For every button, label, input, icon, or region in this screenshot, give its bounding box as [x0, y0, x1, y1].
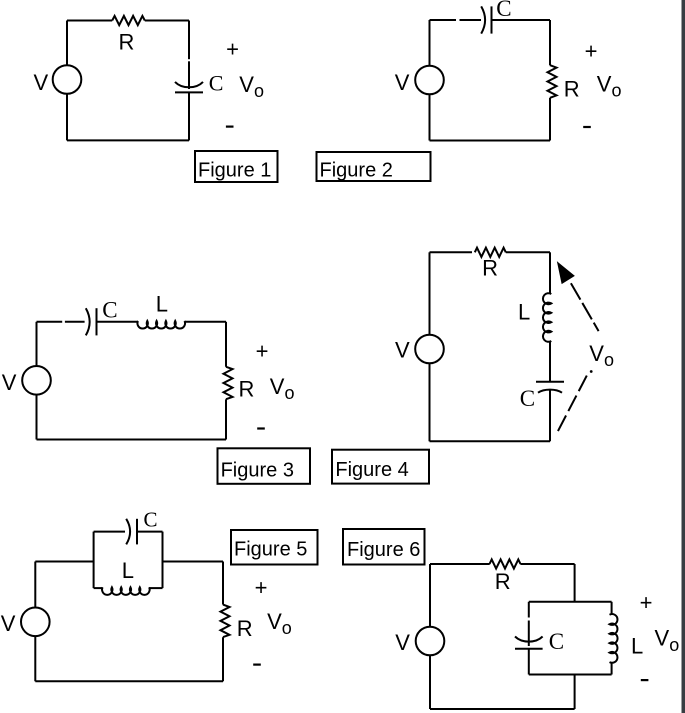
svg-text:Figure 1: Figure 1 — [198, 159, 271, 181]
wire right-upper (Figure 3) — [225, 322, 227, 367]
inductor L (Figure 3) — [137, 321, 185, 329]
minus sign (Figure 3) — [257, 427, 265, 429]
minus sign (Figure 5) — [253, 663, 261, 665]
Figure 4 caption box — [332, 450, 429, 484]
minus sign (Figure 2) — [583, 126, 591, 128]
wire left-top (Figure 3) — [36, 322, 38, 366]
svg-text:L: L — [631, 633, 643, 658]
svg-text:+: + — [226, 37, 239, 62]
voltage source V (Figure 6) — [416, 627, 445, 656]
LC block bottom-right corner (Figure 5) — [149, 587, 162, 589]
CL block bottom edge (Figure 6) — [529, 674, 612, 676]
wire top-left segment (Figure 4) — [430, 251, 473, 253]
inductor L (Figure 4) — [543, 293, 551, 342]
CL block right-upper edge (Figure 6) — [611, 602, 613, 615]
wire left-bottom (Figure 2) — [429, 94, 431, 140]
svg-text:R: R — [564, 77, 580, 102]
wire top-left segment a (Figure 3) — [37, 321, 63, 323]
LC block top-right edge (Figure 5) — [137, 531, 163, 533]
dashed line dot (Figure 4) — [590, 370, 593, 373]
svg-text:Vo: Vo — [589, 341, 614, 370]
svg-text:L: L — [122, 558, 134, 583]
wire bottom (Figure 2) — [430, 140, 551, 142]
resistor R (Figure 4) — [475, 248, 506, 257]
svg-text:V: V — [395, 630, 410, 655]
minus sign (Figure 6) — [641, 679, 649, 681]
svg-text:+: + — [585, 39, 598, 64]
svg-text:Figure 5: Figure 5 — [234, 539, 307, 561]
wire bottom (Figure 3) — [37, 439, 227, 441]
wire right-mid (Figure 4) — [549, 341, 551, 382]
wire left-top (Figure 2) — [429, 20, 431, 66]
dashed arrow shaft upper (Figure 4) — [571, 283, 599, 331]
Figure 2 caption box — [317, 152, 431, 181]
svg-text:L: L — [156, 292, 168, 317]
svg-text:V: V — [395, 70, 410, 95]
wire bottom (Figure 6) — [430, 708, 575, 710]
svg-text:R: R — [495, 569, 511, 594]
minus sign (Figure 1) — [226, 125, 234, 127]
svg-text:C: C — [209, 71, 224, 96]
Figure 5 caption box — [231, 530, 318, 565]
svg-text:Figure 2: Figure 2 — [320, 159, 393, 181]
svg-text:C: C — [496, 0, 511, 21]
LC block left edge (Figure 5) — [93, 532, 95, 589]
svg-text:Figure 4: Figure 4 — [335, 459, 408, 481]
resistor R (Figure 2) — [548, 65, 557, 98]
inductor L (Figure 5) — [102, 587, 150, 595]
svg-text:Vo: Vo — [270, 374, 295, 403]
CL block right-lower edge (Figure 6) — [611, 662, 613, 674]
dashed arrow head (Figure 4) — [558, 263, 573, 283]
CL block left-lower edge (Figure 6) — [528, 649, 530, 675]
wire top-mid segment (Figure 3) — [97, 321, 139, 323]
svg-text:R: R — [482, 256, 498, 281]
CL block left-upper edge a (Figure 6) — [528, 602, 530, 618]
svg-text:L: L — [518, 300, 530, 325]
wire main-left (Figure 5) — [35, 561, 93, 563]
wire top-left segment b (Figure 3) — [65, 321, 85, 323]
LC block bottom-left corner (Figure 5) — [94, 587, 103, 589]
svg-text:R: R — [119, 30, 135, 55]
voltage source V (Figure 1) — [53, 65, 82, 94]
wire top-left segment b (Figure 2) — [460, 19, 482, 21]
wire left-bottom (Figure 4) — [429, 363, 431, 441]
voltage source V (Figure 4) — [415, 335, 444, 364]
svg-text:Vo: Vo — [267, 609, 292, 638]
LC block top-left edge (Figure 5) — [94, 531, 125, 533]
wire right-lower (Figure 4) — [549, 390, 551, 441]
CL block top edge (Figure 6) — [529, 601, 612, 603]
wire bottom (Figure 5) — [35, 680, 223, 682]
CL block left-upper edge b (Figure 6) — [528, 621, 530, 647]
wire right-lower (Figure 5) — [222, 637, 224, 681]
capacitor C (Figure 3) — [86, 308, 90, 335]
dashed line lower (Figure 4) — [557, 376, 587, 433]
wire top-right segment (Figure 2) — [492, 19, 551, 21]
Figure 6 caption box — [343, 529, 425, 565]
svg-text:C: C — [102, 298, 117, 323]
wire top-left segment (Figure 6) — [430, 563, 490, 565]
Figure 1 caption box — [195, 151, 278, 182]
wire right-upper (Figure 4) — [549, 252, 551, 294]
voltage source V (Figure 2) — [415, 66, 444, 95]
svg-text:Figure 6: Figure 6 — [347, 539, 420, 561]
voltage source V (Figure 5) — [21, 608, 50, 637]
resistor R (Figure 5) — [221, 605, 230, 638]
wire left-top (Figure 4) — [429, 252, 431, 334]
svg-text:V: V — [34, 70, 49, 95]
svg-text:Figure 3: Figure 3 — [221, 460, 294, 482]
svg-text:C: C — [549, 629, 564, 654]
inductor L (Figure 6) — [610, 614, 618, 663]
wire left-bottom (Figure 6) — [429, 655, 431, 709]
svg-text:Vo: Vo — [239, 72, 264, 101]
resistor R (Figure 3) — [224, 367, 233, 399]
voltage source V (Figure 3) — [22, 366, 51, 395]
resistor R (Figure 1) — [112, 16, 145, 25]
wire block-to-bottom (Figure 6) — [574, 675, 576, 710]
svg-text:+: + — [256, 339, 269, 364]
page right border — [682, 0, 685, 713]
capacitor C (Figure 5) — [126, 519, 130, 545]
resistor R (Figure 6) — [490, 559, 521, 568]
wire bottom (Figure 4) — [430, 440, 551, 442]
wire top-right segment (Figure 4) — [506, 251, 550, 253]
capacitor C (Figure 6) — [515, 637, 543, 642]
wire top-right segment (Figure 3) — [185, 321, 227, 323]
wire right-upper a (Figure 1) — [188, 21, 190, 60]
svg-text:+: + — [640, 590, 653, 615]
svg-text:V: V — [1, 611, 16, 636]
wire left-bottom (Figure 3) — [36, 395, 38, 440]
svg-text:R: R — [237, 616, 253, 641]
svg-text:Vo: Vo — [597, 72, 622, 101]
wire main-right (Figure 5) — [163, 561, 224, 563]
wire right-drop (Figure 6) — [574, 564, 576, 602]
wire left-bottom (Figure 5) — [34, 636, 36, 681]
capacitor C (Figure 4) — [536, 381, 564, 383]
LC block right edge (Figure 5) — [162, 532, 164, 589]
svg-text:Vo: Vo — [655, 626, 680, 655]
wire left-bottom (Figure 1) — [66, 94, 68, 141]
wire right-lower (Figure 1) — [188, 92, 190, 140]
wire top-left segment a (Figure 2) — [430, 19, 457, 21]
wire bottom (Figure 1) — [67, 139, 189, 141]
wire top-right segment (Figure 1) — [145, 20, 189, 22]
wire top-left segment (Figure 1) — [67, 20, 112, 22]
wire left-top (Figure 5) — [34, 562, 36, 608]
svg-text:V: V — [2, 370, 17, 395]
wire top-right segment (Figure 6) — [520, 563, 574, 565]
capacitor C (Figure 2) — [481, 6, 485, 33]
svg-text:R: R — [239, 377, 255, 402]
wire right-upper b (Figure 1) — [188, 61, 190, 89]
Figure 3 caption box — [218, 448, 311, 484]
wire left-top (Figure 6) — [429, 564, 431, 627]
wire right-upper (Figure 2) — [549, 20, 551, 65]
svg-text:+: + — [255, 575, 268, 600]
wire right-upper (Figure 5) — [222, 562, 224, 605]
wire left-top (Figure 1) — [66, 21, 68, 66]
wire right-lower (Figure 3) — [225, 399, 227, 439]
wire right-lower (Figure 2) — [549, 98, 551, 141]
svg-text:C: C — [520, 386, 535, 411]
svg-text:V: V — [395, 337, 410, 362]
svg-text:C: C — [144, 508, 158, 532]
capacitor C (Figure 1) — [175, 82, 203, 87]
